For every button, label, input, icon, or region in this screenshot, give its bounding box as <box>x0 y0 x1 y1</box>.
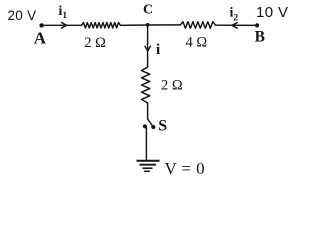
wire node C to R2 <box>148 24 181 26</box>
svg-text:B: B <box>255 29 265 46</box>
node B <box>255 23 259 27</box>
wire R1 to node C <box>121 24 148 26</box>
wire R3 to switch blade <box>147 103 149 119</box>
arrowhead i2 <box>232 23 237 29</box>
arrowhead i1 <box>62 23 67 29</box>
svg-text:i: i <box>156 42 160 58</box>
arrowhead i down <box>145 46 150 51</box>
resistor R 2ohm left <box>82 23 121 29</box>
svg-text:C: C <box>143 3 153 18</box>
svg-text:i2: i2 <box>230 6 239 24</box>
svg-text:10 V: 10 V <box>256 4 288 21</box>
svg-text:S: S <box>158 117 167 134</box>
svg-text:2 Ω: 2 Ω <box>84 35 106 51</box>
svg-text:V = 0: V = 0 <box>165 159 206 178</box>
node C junction <box>146 23 150 27</box>
ground bar 1 <box>137 160 160 162</box>
switch S blade <box>148 119 153 126</box>
ground bar 4 <box>144 170 150 172</box>
switch left contact <box>143 124 147 128</box>
svg-text:A: A <box>34 29 47 48</box>
resistor R 4ohm <box>180 22 215 29</box>
svg-text:4 Ω: 4 Ω <box>186 35 208 51</box>
svg-text:i1: i1 <box>59 4 68 21</box>
wire switch to ground <box>145 128 147 161</box>
switch right contact <box>151 125 155 129</box>
wire A to R1 <box>42 24 82 26</box>
svg-text:20 V: 20 V <box>8 8 37 23</box>
resistor R 2ohm vertical <box>142 67 150 103</box>
ground bar 3 <box>143 167 153 169</box>
wire R2 to node B <box>215 24 257 26</box>
svg-text:2 Ω: 2 Ω <box>161 78 183 94</box>
wire node C down to switch <box>147 25 149 67</box>
ground bar 2 <box>140 164 157 166</box>
node A <box>39 23 43 27</box>
